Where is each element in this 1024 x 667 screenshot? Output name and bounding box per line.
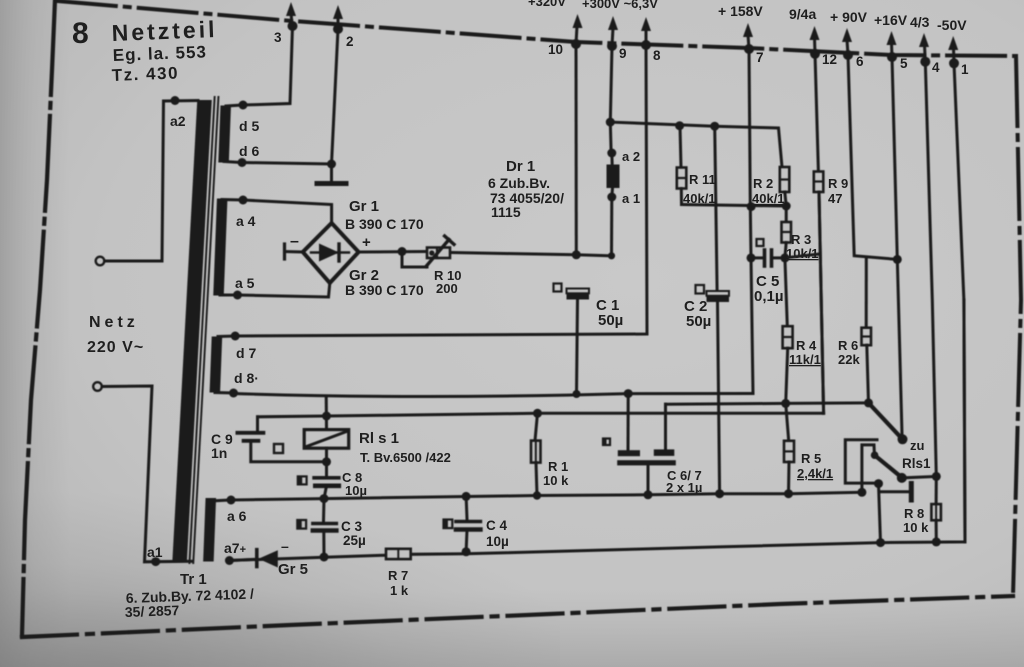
terminal 10 arrow xyxy=(571,14,583,49)
svg-text:+ 158V: + 158V xyxy=(718,3,763,19)
capacitor C8 xyxy=(314,478,339,499)
wire a5 to bridge bottom xyxy=(238,283,330,297)
svg-text:47: 47 xyxy=(828,191,842,206)
node outer bracket to Y2 drop xyxy=(874,479,883,488)
svg-text:200: 200 xyxy=(436,281,458,296)
node top wire at col9 xyxy=(606,118,615,127)
node R8 bottom on Y2 xyxy=(932,537,941,546)
node C1 bottom on wire A xyxy=(573,390,581,398)
node inner bracket on bus Y1 end xyxy=(857,488,866,497)
node Y1 R5 xyxy=(784,489,793,498)
svg-text:R 4: R 4 xyxy=(796,338,817,353)
wire a4 to bridge top xyxy=(243,200,332,223)
svg-text:0,1µ: 0,1µ xyxy=(754,288,784,305)
switch upper arm zu Rls1 xyxy=(869,403,908,444)
terminal 7 arrow xyxy=(743,23,754,54)
wire R3 junction to R9 column xyxy=(785,254,819,258)
node R6 wire to col5 xyxy=(893,255,902,264)
wire Netz lower to a1 xyxy=(102,386,192,562)
node d5 xyxy=(226,101,248,110)
svg-text:9: 9 xyxy=(619,46,627,61)
relay column from wire A to relay xyxy=(325,396,328,430)
terminal 3 arrow xyxy=(286,2,298,31)
column C2 xyxy=(715,126,717,291)
node a6 xyxy=(210,496,236,505)
Netz input terminal lower xyxy=(93,382,102,391)
C3 polarity square xyxy=(297,520,306,529)
svg-text:10µ: 10µ xyxy=(345,483,367,498)
svg-text:a 4: a 4 xyxy=(236,213,256,229)
capacitor C9 xyxy=(237,417,326,462)
svg-text:Eg. la. 553: Eg. la. 553 xyxy=(112,42,207,65)
node Y2 C3 xyxy=(320,553,329,562)
terminal 12 arrow xyxy=(810,26,821,59)
column terminal 10 to C1 xyxy=(575,44,578,255)
svg-text:9/4a: 9/4a xyxy=(789,6,816,22)
page border bottom (dash-dot) xyxy=(22,596,1013,637)
relay Rls1 xyxy=(304,430,349,449)
svg-text:1115: 1115 xyxy=(491,204,521,220)
top distribution wire col9 to R2 xyxy=(610,122,782,167)
terminal 9 arrow xyxy=(607,16,618,51)
C4 polarity square xyxy=(444,520,453,529)
svg-text:4/3: 4/3 xyxy=(910,14,930,30)
svg-text:d 6: d 6 xyxy=(239,143,259,159)
R10 wiper stub xyxy=(402,252,427,268)
svg-text:1 k: 1 k xyxy=(390,583,409,598)
terminal 5 arrow xyxy=(887,31,898,62)
terminal 2 arrow xyxy=(333,5,343,34)
wire terminal 2 to d6 ground junction xyxy=(332,29,339,164)
transformer winding a6/a7 bar xyxy=(203,498,216,562)
node Y1 R1 xyxy=(533,491,541,499)
svg-text:a1: a1 xyxy=(147,544,163,560)
wire d7 to terminal 8 column xyxy=(235,45,647,336)
node C5 left junction xyxy=(747,253,756,262)
svg-text:R 5: R 5 xyxy=(801,451,821,466)
svg-text:6 Zub.Bv.: 6 Zub.Bv. xyxy=(488,175,550,191)
switch linkage inner bracket xyxy=(862,445,875,492)
bridge AC input stub xyxy=(285,244,303,259)
bridge diode xyxy=(311,244,349,262)
svg-text:a2: a2 xyxy=(170,113,186,129)
svg-text:–: – xyxy=(290,233,299,250)
node C2 top junction xyxy=(710,122,719,131)
bus Y2 (a7 / -50V line) xyxy=(229,300,965,561)
capacitor C4 xyxy=(456,496,480,552)
svg-text:Gr 1: Gr 1 xyxy=(349,198,379,215)
svg-text:+320V: +320V xyxy=(528,0,566,9)
transformer winding d5/d6 bar xyxy=(218,106,231,163)
svg-text:50µ: 50µ xyxy=(686,313,711,330)
svg-text:R 3: R 3 xyxy=(791,232,811,247)
resistor R2 xyxy=(780,167,790,206)
wire B (C6/7 right to switch pivot) xyxy=(666,403,869,404)
svg-text:7: 7 xyxy=(756,50,764,65)
resistor R7 xyxy=(386,549,411,559)
svg-text:35/ 2857: 35/ 2857 xyxy=(125,602,180,620)
svg-text:2 x 1µ: 2 x 1µ xyxy=(666,480,702,495)
transformer core lines xyxy=(189,97,214,563)
svg-text:12: 12 xyxy=(822,52,837,67)
svg-text:5: 5 xyxy=(900,56,908,71)
node switch pivot R6 bottom xyxy=(864,398,873,407)
wire Netz upper to a2 xyxy=(105,101,199,262)
C2 polarity square xyxy=(696,285,705,294)
svg-text:3: 3 xyxy=(274,30,282,45)
svg-text:Dr 1: Dr 1 xyxy=(506,158,535,175)
svg-text:T. Bv.6500 /422: T. Bv.6500 /422 xyxy=(360,450,451,465)
svg-text:50µ: 50µ xyxy=(598,312,623,329)
svg-text:+300V ~6,3V: +300V ~6,3V xyxy=(582,0,658,11)
wire C1 bottom to wire A xyxy=(577,300,578,394)
svg-text:11k/1: 11k/1 xyxy=(789,352,821,367)
wire R9 column corner into wire C xyxy=(819,192,824,413)
svg-text:–: – xyxy=(281,538,289,554)
svg-text:zu: zu xyxy=(910,438,925,453)
node a5 xyxy=(220,291,242,300)
wire d8 common (wire A) to col7 corner xyxy=(234,394,754,397)
node R4/R5 junction on wire B xyxy=(781,399,790,408)
resistor R9 xyxy=(814,54,824,413)
svg-text:Gr 5: Gr 5 xyxy=(278,561,308,578)
capacitor C6/7 common plate xyxy=(617,460,676,495)
node R11 top junction xyxy=(675,121,684,130)
ground symbol xyxy=(317,164,346,184)
wire C2 bottom to bus Y1 xyxy=(718,302,720,494)
choke Dr1 xyxy=(607,153,620,197)
node d8 xyxy=(215,389,238,398)
svg-text:a 2: a 2 xyxy=(622,149,640,164)
node a2 xyxy=(171,96,180,105)
wire relay to C8 xyxy=(325,448,328,475)
capacitor C6/7 left xyxy=(618,393,640,456)
wire bridge plus to R10 junction xyxy=(359,250,427,254)
capacitor C1 xyxy=(567,289,590,300)
switch linkage outer bracket xyxy=(845,440,878,483)
terminal 4 arrow xyxy=(919,33,930,67)
svg-text:10: 10 xyxy=(548,42,563,57)
node col7 on R11-R2 wire xyxy=(747,202,756,211)
svg-text:40k/1: 40k/1 xyxy=(683,191,716,206)
C1 polarity square xyxy=(554,284,562,292)
resistor R4 xyxy=(783,258,793,404)
column terminal 7 xyxy=(749,49,753,394)
svg-text:a 6: a 6 xyxy=(227,508,247,524)
capacitor C5 xyxy=(751,250,785,266)
svg-text:R 9: R 9 xyxy=(828,176,848,191)
terminal 6 arrow xyxy=(842,28,853,60)
node col4 R8 top xyxy=(932,472,941,481)
bridge rectifier Gr1/Gr2 diamond xyxy=(303,223,359,283)
node relay bottom / C9 xyxy=(322,457,331,466)
node C4 top on Y1 xyxy=(462,492,471,501)
node d6 xyxy=(224,158,336,169)
capacitor C3 xyxy=(313,499,336,556)
svg-text:R 1: R 1 xyxy=(548,459,568,474)
resistor R3 xyxy=(782,206,792,258)
resistor R10 (trimmer) xyxy=(426,236,454,267)
svg-text:d 8·: d 8· xyxy=(234,370,259,386)
node a7 xyxy=(225,556,234,565)
node Y1 C8/C3 xyxy=(320,494,329,503)
node R1 top on wire C xyxy=(533,409,542,418)
svg-text:+16V: +16V xyxy=(874,12,908,28)
wire R10 to C1 junction to Dr1 column (Y0) xyxy=(452,253,612,256)
svg-text:B 390 C 170: B 390 C 170 xyxy=(345,282,424,298)
svg-text:-50V: -50V xyxy=(937,17,967,33)
wire lower contact to col4 xyxy=(902,476,937,478)
page border right (dash-dot) xyxy=(1013,56,1021,596)
node C5 right / R3 bottom junction xyxy=(780,253,789,262)
node Y0 end at Dr1 column xyxy=(608,252,615,259)
svg-text:R 2: R 2 xyxy=(753,176,773,191)
column terminal 1 xyxy=(954,63,965,542)
svg-text:8: 8 xyxy=(72,17,89,50)
svg-text:6: 6 xyxy=(856,54,864,69)
bus Y1 (a6 common) xyxy=(231,492,862,500)
svg-text:Netzteil: Netzteil xyxy=(111,16,218,46)
column terminal 5 xyxy=(892,57,902,438)
svg-text:+: + xyxy=(362,234,371,251)
node C6/7 left top on wire A xyxy=(624,389,633,398)
node Y1 C6/7 xyxy=(644,490,653,499)
svg-text:2,4k/1: 2,4k/1 xyxy=(797,466,833,481)
node R10 junction xyxy=(398,247,407,256)
wire R11 bottom to R2 bottom xyxy=(682,205,787,207)
svg-text:4: 4 xyxy=(932,60,940,75)
svg-text:a 1: a 1 xyxy=(622,191,640,206)
page border left (dash-dot) xyxy=(22,0,55,636)
svg-text:1n: 1n xyxy=(211,445,227,461)
C5 polarity square xyxy=(757,239,764,246)
svg-text:+ 90V: + 90V xyxy=(830,9,868,25)
svg-text:10k/1: 10k/1 xyxy=(786,246,819,261)
svg-text:R 8: R 8 xyxy=(904,506,924,521)
wire C (relay line) C9 corner to R9 column xyxy=(258,413,824,417)
node relay top on wire C xyxy=(322,412,331,421)
svg-text:40k/1: 40k/1 xyxy=(752,191,785,206)
svg-text:Rl s 1: Rl s 1 xyxy=(359,430,399,447)
switch lower arm xyxy=(871,451,907,482)
node Y2 C4 xyxy=(462,547,471,556)
svg-text:R 11: R 11 xyxy=(689,172,716,187)
resistor R6 xyxy=(862,258,872,403)
capacitor C2 xyxy=(707,291,730,302)
terminal 8 arrow xyxy=(641,17,651,50)
node a1 xyxy=(151,557,160,566)
transformer Tr1 primary winding bar xyxy=(172,100,211,562)
column terminal 4 xyxy=(925,62,936,477)
node R2/R3 junction xyxy=(782,202,791,211)
resistor R5 xyxy=(784,403,794,493)
svg-text:C 3: C 3 xyxy=(341,519,363,534)
node C1 top xyxy=(572,250,581,259)
resistor R1 xyxy=(531,413,541,495)
capacitor C6/7 right xyxy=(654,404,675,456)
svg-text:Tr 1: Tr 1 xyxy=(180,571,207,588)
svg-text:C 4: C 4 xyxy=(486,518,508,533)
C9 polarity square xyxy=(274,444,283,453)
resistor R11 xyxy=(677,126,687,205)
svg-text:10µ: 10µ xyxy=(486,534,509,549)
transformer winding d7/d8 bar xyxy=(210,337,223,393)
svg-text:d 7: d 7 xyxy=(236,345,256,361)
svg-text:d 5: d 5 xyxy=(239,118,259,134)
svg-text:220 V~: 220 V~ xyxy=(87,339,144,356)
svg-text:Netz: Netz xyxy=(89,314,139,331)
transformer winding a4/a5 bar xyxy=(213,199,227,296)
node a1 of Dr1 xyxy=(607,193,616,202)
svg-text:25µ: 25µ xyxy=(343,533,366,548)
C8 polarity square xyxy=(298,476,307,484)
svg-text:B 390 C 170: B 390 C 170 xyxy=(345,216,424,232)
svg-text:10 k: 10 k xyxy=(903,520,929,535)
svg-text:2: 2 xyxy=(346,34,354,49)
wire to R6 top from col6 corner xyxy=(848,55,897,259)
svg-text:8: 8 xyxy=(653,48,661,63)
node a2 of Dr1 xyxy=(607,149,616,158)
resistor R8 xyxy=(931,476,941,542)
svg-text:R 7: R 7 xyxy=(388,568,408,583)
column terminal 9 through Dr1 xyxy=(610,46,612,148)
svg-text:a 5: a 5 xyxy=(235,275,255,291)
svg-text:1: 1 xyxy=(961,62,969,77)
wire terminal 3 to d5 xyxy=(243,26,293,105)
svg-text:Tz. 430: Tz. 430 xyxy=(111,63,179,85)
svg-text:R 6: R 6 xyxy=(838,338,858,353)
wire Dr1 a1 down to Y0 xyxy=(610,197,613,256)
node Y2 at linkage xyxy=(876,538,885,547)
page border top (dash-dot) xyxy=(58,1,1016,56)
svg-text:10 k: 10 k xyxy=(543,473,569,488)
Netz input terminal upper xyxy=(96,257,105,266)
stop bar terminal xyxy=(879,484,911,501)
svg-text:22k: 22k xyxy=(838,352,860,367)
wire bracket down to Y2 xyxy=(879,484,881,543)
node Y1 C2 column xyxy=(715,489,724,498)
terminal 1 arrow xyxy=(948,36,959,68)
C6/7 polarity square xyxy=(603,439,610,446)
transformer Tr1 bars (skewed group) xyxy=(172,97,218,563)
diode Gr5 xyxy=(229,550,277,568)
node d7 xyxy=(218,332,240,341)
node a4 xyxy=(222,196,248,205)
svg-text:Rls1: Rls1 xyxy=(902,456,931,471)
